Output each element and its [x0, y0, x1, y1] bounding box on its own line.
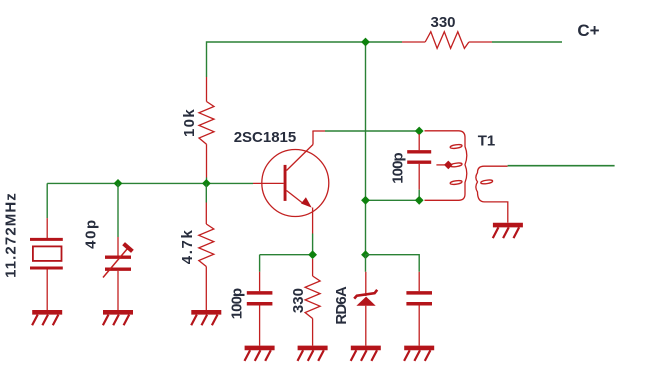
junction supply / primary-bottom — [361, 196, 370, 205]
ground (emitter cap) — [245, 348, 275, 361]
junction base/40p — [114, 179, 123, 188]
transformer T1 center tap — [436, 164, 448, 166]
junction collector / tank top — [415, 127, 424, 136]
transformer T1 secondary winding — [476, 166, 508, 222]
svg-text:330: 330 — [290, 288, 307, 313]
junction base/bias — [202, 179, 211, 188]
wire emitter cap riser — [259, 255, 261, 272]
ground (secondary) — [493, 225, 523, 238]
ground (40p) — [103, 312, 133, 325]
wire top supply rail right segment — [492, 41, 562, 43]
svg-text:4.7k: 4.7k — [179, 229, 196, 265]
wire 40p riser — [117, 183, 119, 237]
capacitor 100p (tank) — [407, 134, 431, 190]
svg-text:T1: T1 — [478, 133, 496, 150]
wire bypass cap link — [366, 255, 420, 272]
wire tank cap bottom stub — [418, 190, 420, 201]
crystal 11.272MHz — [30, 218, 63, 310]
wire base rail — [47, 182, 253, 184]
zener diode RD6A — [354, 272, 377, 346]
svg-text:C+: C+ — [577, 21, 599, 40]
wire secondary output — [508, 165, 615, 167]
resistor 4.7k — [199, 203, 214, 311]
ground (4.7k) — [191, 312, 221, 325]
wire 10k bottom stub — [206, 178, 208, 184]
svg-text:2SC1815: 2SC1815 — [234, 129, 297, 146]
wire collector rail — [325, 130, 419, 132]
transformer T1 primary winding — [425, 131, 467, 201]
resistor 330 (emitter) — [305, 259, 320, 346]
junction supply rail — [361, 38, 370, 47]
svg-text:11.272MHz: 11.272MHz — [3, 192, 20, 278]
svg-text:10k: 10k — [181, 108, 198, 137]
junction tank bottom — [415, 196, 424, 205]
svg-text:100p: 100p — [229, 288, 246, 319]
svg-text:40p: 40p — [83, 218, 100, 249]
resistor 10k — [199, 77, 214, 178]
capacitor 100p (emitter) — [247, 272, 273, 346]
wire crystal riser — [46, 183, 48, 218]
wire primary bottom link — [366, 199, 420, 201]
capacitor (bypass) — [406, 272, 432, 346]
wire supply vertical drop — [365, 42, 367, 255]
wire 4.7k top stub — [205, 183, 207, 202]
trimmer capacitor 40p — [103, 237, 132, 310]
wire emitter drop — [312, 234, 314, 255]
junction supply / bypass row — [361, 250, 370, 259]
svg-text:100p: 100p — [390, 152, 407, 183]
ground (crystal) — [32, 312, 62, 325]
wire zener stub — [365, 255, 367, 272]
ground (zener) — [351, 348, 381, 361]
svg-text:RD6A: RD6A — [333, 286, 350, 325]
resistor 330 (top) — [402, 32, 492, 49]
ground (emitter resistor) — [298, 348, 328, 361]
wire emitter rail — [260, 254, 313, 256]
ground (bypass cap) — [404, 348, 434, 361]
junction emitter — [308, 250, 317, 259]
transistor 2SC1815 — [253, 131, 329, 234]
svg-text:330: 330 — [430, 14, 455, 31]
wire top supply rail left segment — [207, 42, 403, 77]
